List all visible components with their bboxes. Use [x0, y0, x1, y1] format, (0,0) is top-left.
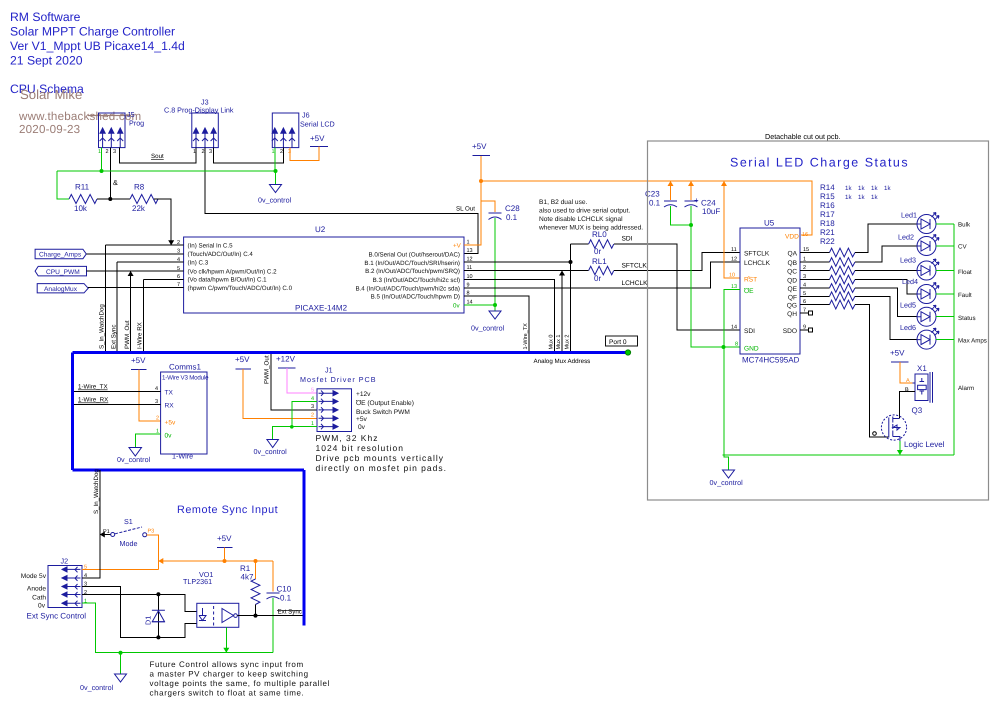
svg-text:2: 2: [156, 416, 159, 422]
svg-text:1k: 1k: [871, 194, 878, 201]
wire tag to pin7: [88, 286, 183, 288]
svg-text:Fault: Fault: [958, 292, 972, 299]
svg-text:0.1: 0.1: [506, 213, 518, 222]
LED Led3: [900, 256, 939, 281]
svg-text:R18: R18: [820, 219, 835, 228]
svg-text:R11: R11: [75, 183, 90, 192]
svg-text:S1: S1: [124, 517, 133, 526]
wire green OE down to 0v rail: [724, 290, 740, 456]
svg-text:Cath: Cath: [32, 595, 46, 602]
ground 0v_control under C28: [489, 311, 501, 319]
connector J1 Mosfet Driver PCB: [300, 366, 377, 432]
svg-text:5: 5: [311, 388, 314, 394]
svg-text:3: 3: [311, 404, 314, 410]
transistor Q3 logic level mosfet: [881, 406, 922, 441]
svg-text:Bulk: Bulk: [958, 222, 971, 229]
svg-text:0v: 0v: [358, 424, 366, 431]
svg-text:U2: U2: [315, 225, 326, 234]
svg-text:R14: R14: [820, 183, 835, 192]
svg-text:1-Wire_RX: 1-Wire_RX: [78, 397, 108, 404]
svg-text:1024 bit resolution: 1024 bit resolution: [316, 443, 404, 453]
svg-text:Ext Sync Control: Ext Sync Control: [27, 612, 87, 621]
svg-text:0v_control: 0v_control: [258, 196, 292, 205]
svg-text:1: 1: [156, 429, 159, 435]
resistors R14-R22 zigzag pack: [830, 248, 856, 309]
U2 left pin labels: [188, 243, 293, 292]
wire mux2 drop: [570, 244, 572, 352]
LED Led4: [902, 277, 939, 304]
svg-text:R16: R16: [820, 201, 835, 210]
svg-text:QB: QB: [787, 260, 797, 267]
wire green C23/C24 ground run: [689, 223, 693, 227]
svg-text:C10: C10: [277, 585, 292, 594]
wire R11 to R8: [97, 198, 130, 200]
svg-text:Status: Status: [958, 315, 976, 322]
svg-text:B.1 (In/Out/ADC/Touch/SRI/hser: B.1 (In/Out/ADC/Touch/SRI/hserin): [364, 260, 460, 267]
wire orange comms1 +5v: [139, 370, 161, 422]
wire RL0 to SDI of U5: [614, 244, 740, 330]
svg-text:B1, B2 dual use.: B1, B2 dual use.: [539, 199, 588, 206]
wire S_In_WatchDog lower: [99, 470, 101, 535]
U5 left pin texts: [744, 251, 771, 336]
blue border left edge: [71, 353, 74, 471]
connector J6: [272, 111, 335, 156]
wire +V orange from +5V rail to pin1: [464, 156, 481, 245]
svg-text:Note disable LCHCLK signal: Note disable LCHCLK signal: [539, 216, 623, 223]
svg-text:QD: QD: [787, 278, 797, 285]
svg-text:CV: CV: [958, 244, 967, 251]
resistor R8 22k: [130, 183, 158, 214]
IC U2 PICAXE-14M2: [184, 225, 464, 313]
U5 left pin numbers: [731, 247, 737, 263]
svg-text:J1: J1: [325, 366, 333, 375]
svg-text:1: 1: [272, 149, 275, 155]
wire orange J2.5: [82, 568, 158, 570]
diode D1: [144, 592, 165, 639]
svg-text:Drive pcb mounts vertically: Drive pcb mounts vertically: [316, 453, 445, 463]
ground 0v_control remote sync: [115, 674, 127, 682]
svg-text:B.2 (In/Out/ADC/Touch/pwm/SRQ): B.2 (In/Out/ADC/Touch/pwm/SRQ): [365, 268, 460, 275]
svg-text:Mux 0: Mux 0: [549, 335, 555, 350]
wire 1-Wire_RX: [74, 403, 161, 405]
net label Ext Sync: [277, 609, 302, 616]
svg-text:+5v: +5v: [165, 420, 177, 427]
svg-text:QE: QE: [787, 286, 797, 293]
resistor RL0 0r: [571, 230, 614, 256]
wire RL1 to SFTCLK of U5: [614, 253, 740, 271]
wire green 0v bus top: [57, 148, 276, 199]
svg-text:AnalogMux: AnalogMux: [44, 286, 78, 293]
module Comms1 1-wire: [161, 363, 209, 461]
svg-text:14: 14: [731, 325, 737, 331]
wire orange to X1 pin A: [900, 362, 913, 383]
J1 notes: [316, 433, 447, 473]
svg-text:2: 2: [280, 149, 283, 155]
svg-text:OE: OE: [744, 288, 754, 295]
wire green TLP gnd: [225, 627, 227, 652]
svg-text:A: A: [906, 378, 910, 384]
wire orange from S1 to rail: [147, 535, 159, 570]
svg-text:Led3: Led3: [900, 256, 916, 265]
J1 right labels: [356, 391, 414, 431]
wire S_In_WatchDog drop: [105, 245, 107, 352]
wire pin2 row: [106, 244, 184, 246]
svg-text:Mux 1: Mux 1: [556, 335, 562, 350]
svg-text:QG: QG: [787, 303, 797, 310]
wires U5 outputs to resistors: [800, 253, 830, 305]
svg-text:Analog Mux Address: Analog Mux Address: [534, 358, 591, 365]
svg-text:+V: +V: [453, 243, 462, 250]
svg-text:22k: 22k: [132, 204, 146, 213]
U2 right pin numbers: [467, 240, 473, 306]
svg-text:2: 2: [106, 149, 109, 155]
wire orange +5v stem: [224, 548, 226, 562]
svg-text:LCHCLK: LCHCLK: [744, 260, 771, 267]
svg-text:Ext Sync: Ext Sync: [278, 609, 302, 616]
svg-text:R22: R22: [820, 237, 835, 246]
wire green comms1 0v: [135, 434, 160, 447]
wire R8 to U2 pin2: [154, 199, 171, 245]
U2 left pin numbers: [177, 240, 180, 288]
wire green J2.1 to gnd rail: [82, 603, 273, 653]
svg-text:R15: R15: [820, 192, 835, 201]
wire green J1 pin4 OE: [292, 401, 317, 427]
wire pin4 row: [117, 261, 184, 263]
svg-text:LCHCLK: LCHCLK: [622, 280, 649, 287]
svg-text:0v_control: 0v_control: [80, 683, 114, 692]
svg-text:MC74HC595AD: MC74HC595AD: [742, 356, 800, 365]
svg-text:+12v: +12v: [356, 391, 371, 398]
svg-text:QA: QA: [787, 251, 797, 258]
switch S1: [100, 517, 154, 548]
svg-text:PWM_Out: PWM_Out: [264, 355, 271, 384]
svg-text:8: 8: [735, 342, 738, 348]
wire QG to Q3 gate: [855, 305, 889, 437]
wire J2.2 to TLP high side: [82, 594, 197, 611]
svg-text:(hpwm C/pwm/Touch/ADC/Out/In): (hpwm C/pwm/Touch/ADC/Out/In) C.0: [188, 285, 293, 292]
J2 left labels: [21, 573, 47, 610]
svg-text:Detachable cut out pcb.: Detachable cut out pcb.: [765, 132, 841, 141]
optocoupler VO1 TLP2361: [183, 570, 239, 627]
LED function labels: [958, 222, 987, 393]
svg-text:Alarm: Alarm: [958, 385, 974, 392]
wire pin6 row: [143, 278, 183, 280]
U5 SDO stub: [800, 329, 809, 331]
svg-text:1k: 1k: [845, 194, 852, 201]
svg-text:SFTCLK: SFTCLK: [622, 263, 648, 270]
wire B.3 row mux0 drop: [464, 280, 555, 353]
resistor network R14-R22 labels: [820, 183, 835, 246]
svg-text:0v_control: 0v_control: [254, 447, 288, 456]
svg-text:Ver V1_Mppt UB Picaxe14_1.4d: Ver V1_Mppt UB Picaxe14_1.4d: [10, 39, 185, 53]
svg-text:11: 11: [731, 247, 737, 253]
connector J3: [164, 98, 234, 156]
svg-text:I-Wire RX: I-Wire RX: [137, 322, 144, 349]
svg-text:1-Wire_TX: 1-Wire_TX: [78, 384, 108, 391]
svg-text:12: 12: [731, 257, 737, 263]
wire QC to Led3: [855, 270, 917, 272]
blue border bottom edge: [73, 469, 305, 472]
svg-text:+5V: +5V: [131, 356, 146, 365]
svg-text:Mosfet Driver PCB: Mosfet Driver PCB: [300, 375, 377, 384]
svg-text:Comms1: Comms1: [169, 363, 202, 372]
svg-text:chargers switch to float at sa: chargers switch to float at same time.: [150, 689, 305, 698]
wire 1-Wire_TX: [74, 390, 161, 392]
wire tag to pin5: [87, 270, 184, 272]
wire J5.2 down: [109, 148, 111, 199]
svg-text:0v: 0v: [165, 433, 173, 440]
svg-text:Serial LCD: Serial LCD: [300, 120, 335, 129]
svg-text:(Vo data/hpwm B/Out/In) C.1: (Vo data/hpwm B/Out/In) C.1: [188, 277, 268, 284]
svg-text:QC: QC: [787, 269, 797, 276]
svg-text:R21: R21: [820, 228, 835, 237]
U5 right pin texts: [783, 251, 798, 336]
resistor R1 4k7: [240, 559, 260, 618]
svg-text:Ext Sync: Ext Sync: [111, 325, 118, 349]
wire B.2 row to RL1: [464, 270, 589, 272]
connector J5: [98, 110, 144, 155]
wire orange to J1 pin2: [243, 369, 317, 418]
LED Led6: [900, 323, 939, 349]
wire Ext Sync drop: [116, 262, 118, 352]
svg-text:+5V: +5V: [472, 142, 487, 151]
svg-text:Remote Sync Input: Remote Sync Input: [177, 504, 278, 516]
svg-text:Sout: Sout: [151, 153, 164, 160]
svg-text:directly on mosfet pin pads.: directly on mosfet pin pads.: [316, 463, 447, 473]
wire J2.3 to TLP low side: [82, 587, 197, 638]
LED Led1: [901, 211, 939, 234]
ground 0v_control under J6: [258, 185, 292, 205]
svg-text:Prog: Prog: [129, 119, 144, 128]
capacitor C23 0.1: [645, 181, 691, 225]
svg-text:Led2: Led2: [898, 233, 914, 242]
wire QF to Led6: [855, 296, 917, 339]
+5V power symbol at J6: [290, 134, 328, 161]
green 0v rail bottom of led panel: [723, 454, 955, 456]
svg-text:Led1: Led1: [901, 211, 917, 220]
svg-text:Charge_Amps: Charge_Amps: [39, 252, 82, 259]
svg-text:1-Wire_TX: 1-Wire_TX: [523, 323, 529, 350]
U5 right pin numbers: [803, 247, 809, 331]
svg-text:Solar Mike: Solar Mike: [20, 87, 82, 102]
wire SL Out from J3.2 to U2 pin13: [205, 148, 478, 254]
svg-text:X1: X1: [917, 364, 927, 373]
svg-text:QF: QF: [788, 294, 797, 301]
svg-text:VDD: VDD: [785, 234, 799, 241]
svg-text:1: 1: [98, 149, 101, 155]
svg-text:(Vo clk/hpwm A/pwm/Out/In) C.2: (Vo clk/hpwm A/pwm/Out/In) C.2: [188, 268, 278, 275]
svg-text:0v: 0v: [38, 603, 46, 610]
svg-text:1k: 1k: [858, 194, 865, 201]
svg-text:GND: GND: [744, 346, 759, 353]
U5 QH stub: [800, 312, 809, 314]
svg-text:1k: 1k: [871, 185, 878, 192]
wire orange branch to C28: [481, 201, 495, 212]
svg-text:2: 2: [84, 590, 87, 596]
svg-text:1k: 1k: [858, 185, 865, 192]
svg-text:0v_control: 0v_control: [117, 455, 151, 464]
svg-text:Led4: Led4: [902, 277, 918, 286]
junction: [108, 197, 112, 201]
detachable pcb outline: [648, 141, 989, 500]
tag Charge_Amps: [35, 249, 86, 259]
svg-text:Serial LED Charge Status: Serial LED Charge Status: [730, 156, 909, 170]
svg-text:1k: 1k: [884, 185, 891, 192]
svg-text:SFTCLK: SFTCLK: [744, 251, 770, 258]
svg-text:2: 2: [202, 149, 205, 155]
ground 0v_control led panel: [723, 470, 735, 478]
wire pink +12v to J1 pin5: [287, 368, 317, 393]
IC U5 MC74HC595AD: [740, 219, 800, 365]
wire green J1 pin1 0v: [272, 427, 317, 440]
svg-text:a master PV charger to keep sw: a master PV charger to keep switching: [150, 670, 309, 679]
wire orange to C10: [272, 561, 274, 592]
wire B.1 row to RL0: [464, 261, 571, 263]
Port 0 label box: [606, 336, 638, 346]
svg-text:&: &: [113, 178, 118, 187]
wire X1 pin B to Q3 drain: [899, 391, 915, 418]
svg-text:0r: 0r: [594, 274, 601, 283]
wire orange RST: [724, 181, 740, 278]
svg-text:J6: J6: [302, 111, 310, 120]
svg-text:13: 13: [467, 248, 473, 254]
svg-text:RX: RX: [165, 403, 175, 410]
connector J2: [48, 557, 82, 608]
svg-text:B.5 (In/Out/ADC/Touch/hpwm D): B.5 (In/Out/ADC/Touch/hpwm D): [371, 294, 460, 301]
svg-text:RST: RST: [744, 277, 757, 284]
svg-text:Buck Switch PWM: Buck Switch PWM: [356, 409, 410, 416]
svg-text:RM Software: RM Software: [10, 10, 81, 24]
wire mux1 drop: [561, 271, 563, 353]
blue border right edge remote sync: [303, 470, 306, 626]
svg-text:R8: R8: [134, 183, 145, 192]
svg-text:SDI: SDI: [744, 328, 755, 335]
svg-text:C28: C28: [505, 204, 520, 213]
ground 0v_control comms1: [129, 448, 142, 457]
svg-text:S_In_WatchDog: S_In_WatchDog: [93, 469, 100, 514]
note future control: [150, 660, 330, 698]
svg-text:Logic Level: Logic Level: [904, 440, 945, 449]
svg-text:(Touch/ADC/Out/In) C.4: (Touch/ADC/Out/In) C.4: [188, 251, 254, 258]
wire PWM_Out drop: [130, 271, 132, 352]
wire J2.4 to switch: [82, 535, 100, 579]
svg-text:Max Amps: Max Amps: [958, 338, 987, 345]
svg-text:B.0/Serial Out (Out/hserout/D: B.0/Serial Out (Out/hserout/DAC): [369, 251, 460, 258]
wire QB to Led2: [855, 246, 917, 262]
svg-text:SL Out: SL Out: [456, 206, 475, 213]
svg-text:10k: 10k: [74, 204, 88, 213]
svg-text:2020-09-23: 2020-09-23: [19, 123, 80, 136]
LED Led2: [898, 233, 939, 256]
svg-text:Anode: Anode: [27, 586, 46, 593]
wire green Q3 source to bus: [899, 441, 901, 455]
svg-text:CPU_PWM: CPU_PWM: [46, 269, 80, 276]
svg-text:3: 3: [113, 149, 116, 155]
tag CPU_PWM: [35, 266, 86, 276]
svg-text:0v_control: 0v_control: [471, 324, 505, 333]
capacitor C24 10uF: [685, 181, 721, 225]
svg-text:SDI: SDI: [622, 236, 633, 243]
svg-text:0r: 0r: [594, 247, 601, 256]
buzzer X1: [913, 364, 933, 403]
green wires LEDs to bus: [936, 224, 954, 455]
LED Led5: [900, 301, 939, 327]
svg-text:Led5: Led5: [900, 301, 916, 310]
svg-text:Mux 2: Mux 2: [565, 335, 571, 350]
svg-text:Solar MPPT Charge Controller: Solar MPPT Charge Controller: [10, 25, 175, 39]
svg-text:SDO: SDO: [783, 328, 797, 335]
svg-text:0.1: 0.1: [280, 594, 292, 603]
svg-text:RL1: RL1: [592, 257, 607, 266]
svg-text:B.3 (In/Out/ADC/Touch/hi2c sc: B.3 (In/Out/ADC/Touch/hi2c scl): [373, 277, 460, 284]
wire B.4 row to LCHCLK of U5: [464, 262, 740, 288]
svg-text:PWM_Out: PWM_Out: [124, 320, 131, 349]
svg-text:Port 0: Port 0: [609, 339, 627, 346]
wire green drop to ground: [120, 653, 122, 674]
svg-text:QH: QH: [787, 311, 797, 318]
svg-text:+5v: +5v: [356, 416, 368, 423]
wire Sout J5.3 to J3.1: [119, 148, 196, 163]
ground 0v_control J1: [267, 440, 279, 448]
svg-text:0v: 0v: [453, 303, 460, 310]
svg-text:C.8 Prog-Display Link: C.8 Prog-Display Link: [164, 106, 234, 115]
svg-text:16: 16: [802, 232, 808, 238]
svg-text:S_In_WatchDog: S_In_WatchDog: [99, 304, 106, 349]
svg-text:also used to drive serial outp: also used to drive serial output.: [539, 208, 630, 215]
svg-text:Mode 5v: Mode 5v: [21, 573, 47, 580]
svg-text:TLP2361: TLP2361: [183, 577, 212, 586]
svg-text:(In) C.3: (In) C.3: [188, 260, 209, 267]
svg-text:+5V: +5V: [235, 355, 250, 364]
svg-text:+5V: +5V: [310, 134, 325, 143]
wire tag to pin3: [86, 253, 183, 255]
svg-text:PWM, 32 Khz: PWM, 32 Khz: [316, 433, 379, 443]
svg-text:+5V: +5V: [217, 534, 232, 543]
svg-text:U5: U5: [764, 219, 775, 228]
svg-text:J2: J2: [61, 557, 69, 566]
svg-text:OE (Output Enable): OE (Output Enable): [356, 400, 414, 407]
svg-text:+12V: +12V: [276, 355, 296, 364]
svg-text:0.1: 0.1: [649, 199, 661, 208]
wire orange rail to C23 C24 VDD: [481, 181, 812, 235]
svg-text:1-Wire V3 Module: 1-Wire V3 Module: [162, 375, 209, 382]
note B1 B2 dual use: [538, 199, 643, 232]
capacitor C28 0.1: [489, 204, 521, 222]
bus end node: [625, 350, 630, 355]
svg-text:21 Sept 2020: 21 Sept 2020: [10, 54, 83, 68]
svg-text:2: 2: [311, 413, 314, 419]
orange junction top rail: [479, 179, 483, 183]
svg-text:Mode: Mode: [120, 539, 138, 548]
svg-text:1k: 1k: [845, 185, 852, 192]
svg-text:Q3: Q3: [912, 406, 923, 415]
svg-text:10uF: 10uF: [702, 207, 720, 216]
wire TLP out to border: [237, 615, 302, 617]
blue port0 bus rail: [73, 351, 629, 354]
resistor R11 10k: [69, 183, 97, 214]
svg-text:voltage points the same, fo mu: voltage points the same, fo multiple par…: [150, 679, 330, 688]
wire green C28 to 0v: [494, 218, 496, 305]
capacitor C10 0.1: [267, 585, 292, 653]
U2 right pin labels: [355, 251, 460, 300]
wire QA to Led1: [855, 224, 917, 253]
svg-text:www.thebackshed.com: www.thebackshed.com: [18, 110, 141, 123]
orange rail: [158, 560, 273, 562]
wire QE to Led5: [855, 288, 917, 317]
svg-text:10: 10: [729, 273, 735, 279]
junction dots: [100, 169, 104, 173]
wire 1-Wire RX drop: [142, 279, 144, 352]
